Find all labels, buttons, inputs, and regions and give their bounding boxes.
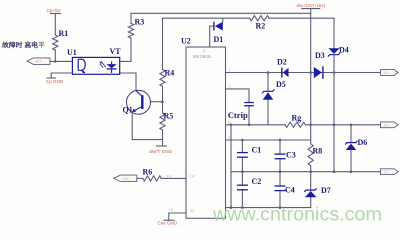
svg-text:www.cntronics.com: www.cntronics.com	[212, 205, 382, 226]
svg-text:G1: G1	[384, 71, 389, 75]
svg-text:14: 14	[190, 174, 195, 179]
svg-text:C4: C4	[285, 186, 295, 195]
svg-text:dse+12V(+15V): dse+12V(+15V)	[297, 3, 326, 8]
svg-text:E1: E1	[384, 123, 388, 127]
svg-text:VT: VT	[110, 47, 122, 56]
svg-text:R4: R4	[165, 69, 175, 78]
svg-text:Cp+5V: Cp+5V	[47, 8, 62, 13]
svg-text:C1: C1	[252, 146, 262, 155]
svg-text:14: 14	[167, 174, 172, 179]
svg-text:Cav GND: Cav GND	[158, 221, 178, 226]
svg-text:平: 平	[38, 41, 45, 49]
svg-text:R8: R8	[313, 147, 323, 156]
svg-text:INT: INT	[36, 60, 43, 64]
svg-text:13: 13	[169, 207, 174, 212]
svg-text:Cp GND: Cp GND	[46, 79, 64, 84]
svg-text:Ctrip: Ctrip	[228, 110, 248, 120]
svg-text:dse/T GND: dse/T GND	[149, 149, 173, 154]
svg-text:D3: D3	[315, 51, 325, 60]
svg-text:Q1: Q1	[123, 106, 133, 115]
svg-text:D1: D1	[214, 35, 224, 44]
svg-text:C1: C1	[384, 170, 389, 174]
svg-text:C3: C3	[286, 151, 296, 160]
svg-text:R6: R6	[143, 167, 153, 176]
svg-text:R3: R3	[135, 18, 145, 27]
svg-text:D7: D7	[321, 186, 331, 195]
svg-text:D4: D4	[339, 46, 349, 55]
svg-text:D6: D6	[358, 138, 368, 147]
svg-text:M57962L: M57962L	[193, 54, 212, 59]
svg-text:D5: D5	[276, 80, 286, 89]
svg-text:R2: R2	[256, 22, 266, 31]
svg-text:R1: R1	[59, 29, 69, 38]
svg-text:故障时 高电: 故障时 高电	[2, 40, 39, 49]
svg-text:U2: U2	[181, 37, 191, 46]
svg-text:VIN: VIN	[123, 177, 129, 181]
svg-text:U1: U1	[67, 48, 77, 57]
svg-text:C2: C2	[252, 177, 262, 186]
svg-text:Rg: Rg	[292, 113, 302, 122]
svg-text:R5: R5	[164, 112, 174, 121]
svg-text:D2: D2	[277, 57, 287, 66]
